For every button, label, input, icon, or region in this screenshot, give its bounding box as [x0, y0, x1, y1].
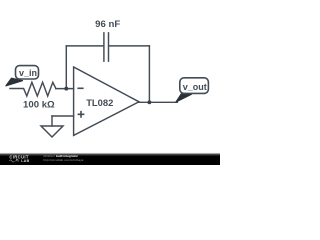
svg-text:100 kΩ: 100 kΩ — [23, 100, 55, 111]
flag v_out tail — [176, 93, 192, 102]
svg-text:TL082: TL082 — [86, 97, 113, 108]
wire: capacitor left lead — [66, 45, 103, 47]
node junction dot at inverting input — [64, 87, 68, 91]
footer black bar soft top edge — [0, 153, 220, 156]
op-amp U1 triangle body — [74, 67, 139, 135]
flag v_in box — [16, 66, 39, 79]
wire: vertical branch from inverting node up to capacitor — [65, 46, 67, 89]
flag v_out box — [180, 78, 209, 94]
op-amp plus pin symbol — [78, 111, 85, 118]
footer black bar — [0, 155, 220, 165]
flag v_in tail — [6, 78, 23, 86]
capacitor C1 plates (96 nF) — [104, 33, 109, 61]
svg-text:96 nF: 96 nF — [95, 19, 120, 30]
wire: vertical branch from capacitor down to output node — [148, 46, 150, 102]
wire: capacitor right lead — [109, 45, 149, 47]
wire: op-amp output — [139, 101, 177, 103]
svg-text:LAB: LAB — [21, 159, 29, 163]
op-amp minus pin symbol — [77, 87, 83, 89]
wire: non-inverting input — [52, 115, 74, 117]
svg-text:v_out: v_out — [183, 82, 207, 92]
ground symbol — [41, 126, 63, 137]
svg-text:v_in: v_in — [19, 68, 37, 78]
footer CircuitLab logo waveform + LAB — [10, 159, 20, 162]
node junction dot at output — [147, 100, 151, 104]
wire: ground stem — [51, 116, 53, 126]
wire: resistor to op-amp inverting input — [56, 88, 74, 90]
svg-text:http://circuitlab.com/c2mhaya: http://circuitlab.com/c2mhaya — [43, 158, 83, 162]
resistor R1 100k zigzag — [10, 82, 56, 96]
